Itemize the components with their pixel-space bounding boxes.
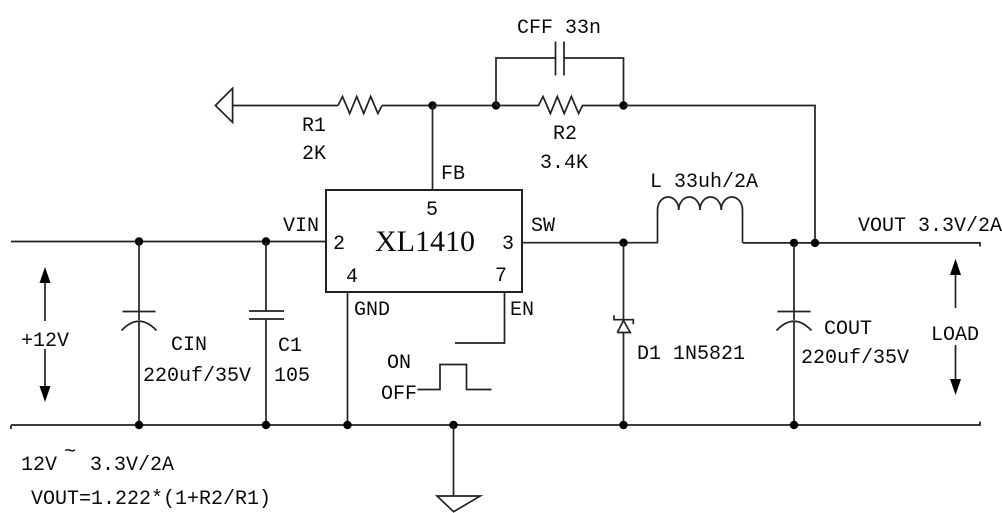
svg-text:GND: GND bbox=[354, 299, 390, 322]
waveform ON/OFF bbox=[418, 365, 492, 390]
svg-text:XL1410: XL1410 bbox=[375, 225, 475, 258]
wire SW node to D1 bbox=[623, 243, 625, 320]
wire FB node to CFF left node bbox=[433, 105, 497, 107]
svg-text:R1: R1 bbox=[302, 115, 326, 138]
svg-text:3: 3 bbox=[502, 233, 514, 256]
wire CFF right riser bbox=[564, 58, 624, 106]
svg-text:VOUT 3.3V/2A: VOUT 3.3V/2A bbox=[858, 215, 1002, 238]
resistor R1 bbox=[338, 97, 382, 114]
node CIN top bbox=[135, 237, 143, 245]
capacitor COUT bbox=[777, 243, 812, 425]
diode D1 schottky bbox=[614, 315, 633, 332]
svg-text:OFF: OFF bbox=[381, 383, 417, 406]
svg-text:105: 105 bbox=[274, 365, 310, 388]
svg-text:D1 1N5821: D1 1N5821 bbox=[637, 343, 745, 366]
svg-text:3.3V/2A: 3.3V/2A bbox=[90, 454, 174, 477]
wire top rail right SW segment bbox=[522, 242, 658, 244]
node SW/D1/L junction bbox=[619, 239, 627, 247]
svg-text:12V: 12V bbox=[21, 454, 57, 477]
wire top rail right VOUT segment bbox=[743, 243, 980, 247]
svg-text:220uf/35V: 220uf/35V bbox=[143, 365, 251, 388]
arrow left open triangle (R1 to output sense) bbox=[215, 88, 232, 122]
wire CFF left riser bbox=[496, 58, 556, 106]
node ground tap bbox=[449, 421, 457, 429]
wire top rail left VIN net bbox=[11, 241, 326, 243]
wire to ground bbox=[453, 425, 455, 496]
node feedback at VOUT rail bbox=[811, 239, 819, 247]
arrow LOAD output indicator bbox=[955, 268, 957, 386]
node pin4 at bottom rail bbox=[343, 421, 351, 429]
svg-text:CFF 33n: CFF 33n bbox=[517, 17, 601, 40]
svg-text:L 33uh/2A: L 33uh/2A bbox=[650, 171, 758, 194]
node C1 bottom bbox=[262, 421, 270, 429]
svg-text:VOUT=1.222*(1+R2/R1): VOUT=1.222*(1+R2/R1) bbox=[31, 488, 271, 511]
wire D1 to bottom rail bbox=[623, 333, 625, 426]
svg-text:SW: SW bbox=[531, 215, 555, 238]
svg-text:~: ~ bbox=[64, 441, 76, 464]
svg-text:EN: EN bbox=[510, 299, 534, 322]
svg-text:VIN: VIN bbox=[283, 215, 319, 238]
ground bbox=[437, 496, 480, 512]
svg-text:220uf/35V: 220uf/35V bbox=[801, 347, 909, 370]
arrow +12V input indicator bbox=[44, 276, 46, 392]
wire bottom rail GND net bbox=[11, 422, 980, 430]
svg-text:4: 4 bbox=[346, 266, 358, 289]
op-amp U1 XL1410 box bbox=[326, 190, 522, 292]
svg-text:3.4K: 3.4K bbox=[540, 152, 588, 175]
node FB junction bbox=[428, 101, 436, 109]
resistor R2 bbox=[496, 97, 624, 114]
node CFF left bbox=[492, 101, 500, 109]
capacitor C1 bbox=[249, 242, 284, 426]
svg-text:5: 5 bbox=[426, 199, 438, 222]
svg-text:ON: ON bbox=[387, 352, 411, 375]
node COUT top bbox=[790, 239, 798, 247]
svg-text:FB: FB bbox=[441, 163, 465, 186]
capacitor CFF bbox=[556, 42, 565, 76]
svg-text:COUT: COUT bbox=[824, 318, 872, 341]
capacitor CIN bbox=[122, 242, 157, 426]
svg-text:CIN: CIN bbox=[171, 334, 207, 357]
wire FB node to pin5 bbox=[432, 106, 434, 191]
svg-text:LOAD: LOAD bbox=[931, 324, 979, 347]
node CIN bottom bbox=[135, 421, 143, 429]
svg-text:7: 7 bbox=[495, 265, 507, 288]
svg-text:2: 2 bbox=[333, 233, 345, 256]
svg-text:C1: C1 bbox=[278, 335, 302, 358]
wire pin4 GND to bottom rail bbox=[347, 292, 349, 425]
wire R1 to FB node bbox=[382, 105, 433, 107]
wire arrow to R1 bbox=[233, 105, 338, 107]
svg-text:+12V: +12V bbox=[21, 330, 69, 353]
svg-text:R2: R2 bbox=[553, 123, 577, 146]
inductor L bbox=[658, 197, 743, 243]
node D1 at bottom rail bbox=[619, 421, 627, 429]
wire pin7 EN bbox=[455, 292, 505, 343]
svg-text:2K: 2K bbox=[302, 143, 326, 166]
node C1 top bbox=[262, 237, 270, 245]
node CFF right bbox=[619, 101, 627, 109]
wire feedback to VOUT rail bbox=[624, 106, 816, 243]
node COUT bottom bbox=[790, 421, 798, 429]
